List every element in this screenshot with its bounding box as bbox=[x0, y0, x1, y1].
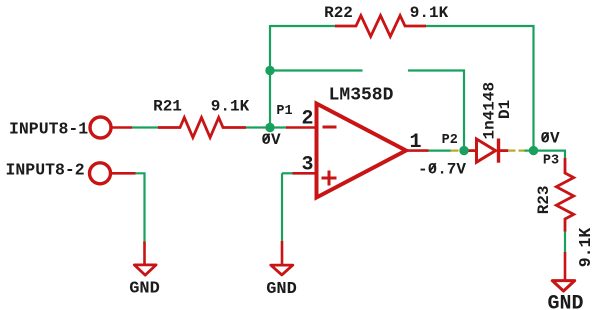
wire cathode to 0V node bbox=[524, 150, 534, 152]
wire red stub into pin 2 bbox=[286, 126, 316, 129]
slash of zero in 0V at P1 bbox=[263, 134, 269, 143]
op-amp plus input mark bbox=[322, 171, 337, 186]
wire gap segment left at y=70.5 bbox=[270, 69, 363, 71]
wire input node left of R21 bbox=[131, 126, 159, 128]
wire red stub into pin 3 bbox=[293, 172, 317, 175]
wire top feedback left segment bbox=[270, 25, 336, 27]
wire pin 3 down to GND bbox=[281, 173, 283, 241]
diode D1 bbox=[469, 139, 509, 163]
wire top feedback right segment down to 0V node bbox=[425, 26, 534, 149]
net highlight dash left of node P2 bbox=[451, 150, 459, 152]
ground symbol under INPUT8-2 bbox=[134, 265, 156, 275]
net highlight dashes right of diode bbox=[509, 150, 516, 152]
svg-text:9.1K: 9.1K bbox=[576, 228, 595, 268]
svg-text:INPUT8-1: INPUT8-1 bbox=[9, 120, 88, 139]
svg-text:2: 2 bbox=[301, 108, 313, 131]
wire red stub R23 to GND bbox=[564, 252, 567, 281]
svg-text:R22: R22 bbox=[324, 4, 353, 22]
svg-text:-0.7V: -0.7V bbox=[418, 160, 466, 178]
wire below R23 bbox=[564, 231, 566, 253]
svg-text:D1: D1 bbox=[496, 100, 514, 119]
svg-text:R23: R23 bbox=[535, 185, 553, 214]
svg-text:3: 3 bbox=[301, 153, 313, 176]
wire R21 to node P1 and on to pin 2 bbox=[245, 126, 287, 128]
wire red stub from INPUT8-2 circle bbox=[111, 172, 136, 175]
svg-text:9.1K: 9.1K bbox=[410, 4, 449, 22]
svg-text:1: 1 bbox=[409, 131, 421, 154]
svg-text:GND: GND bbox=[266, 280, 297, 299]
resistor R23 bbox=[556, 158, 573, 232]
port circle INPUT8-2 bbox=[90, 163, 111, 184]
node 0V junction bbox=[529, 146, 538, 155]
svg-text:9.1K: 9.1K bbox=[211, 98, 250, 116]
resistor R21 bbox=[158, 118, 246, 138]
svg-text:P2: P2 bbox=[442, 133, 458, 148]
op-amp minus input mark bbox=[323, 126, 337, 129]
node P2 junction bbox=[459, 146, 468, 155]
svg-text:P3: P3 bbox=[543, 153, 559, 168]
wire pin 3 stub bbox=[282, 172, 293, 174]
wire INPUT8-2 down to GND bbox=[134, 173, 145, 244]
wire red stub from INPUT8-1 circle bbox=[112, 126, 133, 129]
svg-text:GND: GND bbox=[129, 280, 160, 299]
resistor R22 bbox=[335, 16, 426, 37]
wire red stub from output pin 1 bbox=[406, 149, 429, 152]
svg-text:INPUT8-2: INPUT8-2 bbox=[6, 161, 85, 180]
wire gap segment right dropping to node P2 bbox=[408, 71, 464, 151]
wire red drop to GND under pin 3 bbox=[281, 241, 284, 265]
slash of zero in -0.7V bbox=[430, 163, 436, 172]
wire output to node P2 bbox=[428, 150, 451, 152]
svg-text:P1: P1 bbox=[276, 104, 292, 119]
svg-text:R21: R21 bbox=[153, 98, 182, 116]
svg-text:GND: GND bbox=[547, 293, 583, 310]
slash of zero in 0V at cathode bbox=[542, 133, 548, 142]
node P1 junction bbox=[265, 123, 274, 132]
svg-text:LM358D: LM358D bbox=[329, 86, 394, 106]
port circle INPUT8-1 bbox=[90, 117, 111, 138]
op-amp U1 LM358D bbox=[317, 104, 407, 198]
ground symbol under R23 bbox=[552, 281, 574, 291]
junction node at feedback tap bbox=[265, 66, 274, 75]
wire 0V node to R23 bbox=[534, 151, 566, 159]
wire red drop to GND under INPUT8-2 bbox=[143, 242, 146, 266]
ground symbol under pin 3 bbox=[271, 265, 293, 275]
wire vertical feedback x=270 from top to node P1 bbox=[269, 25, 271, 128]
